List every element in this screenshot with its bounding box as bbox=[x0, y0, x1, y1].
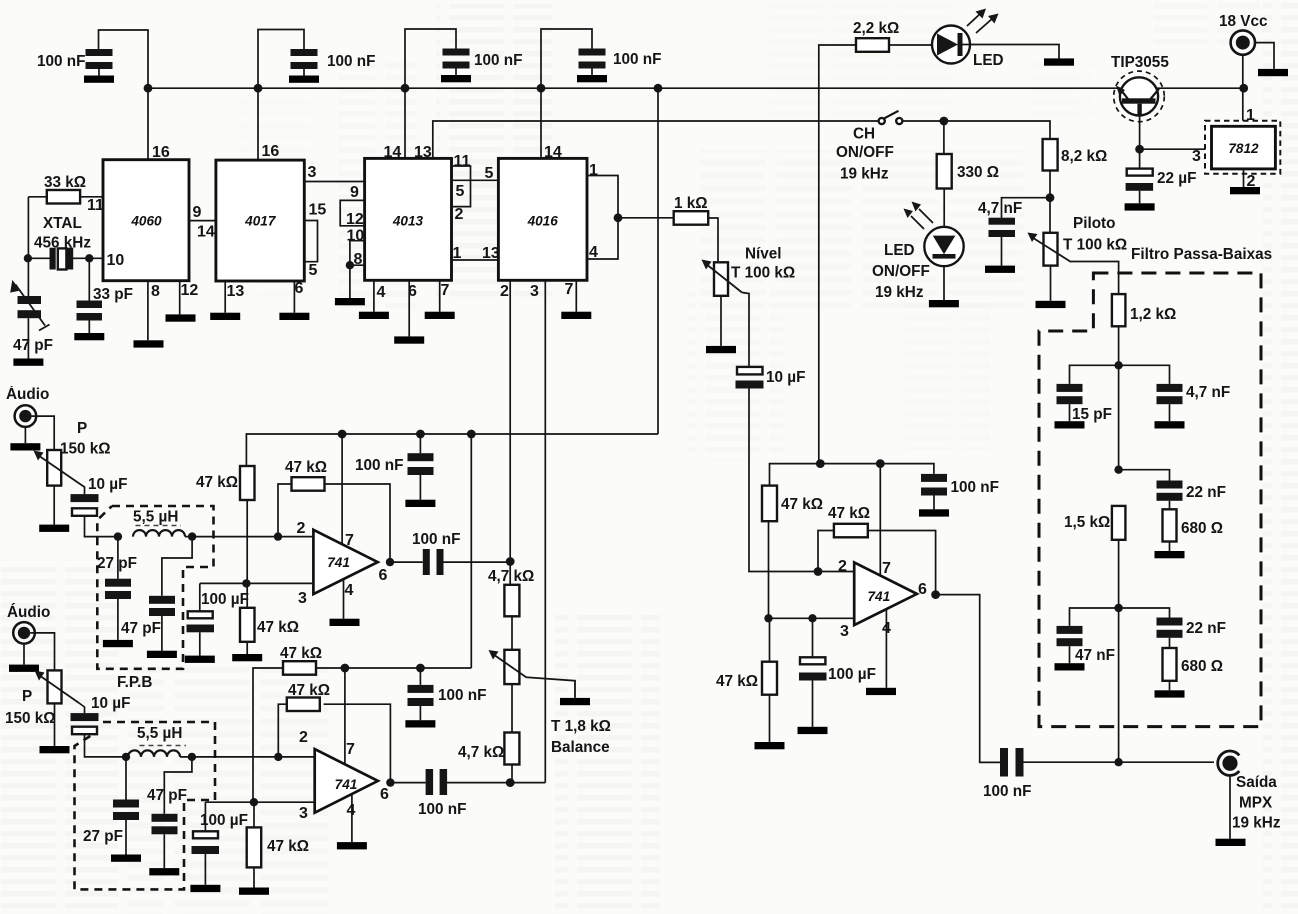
svg-text:1 kΩ: 1 kΩ bbox=[674, 195, 708, 212]
wire piloto bottom to ground bbox=[1050, 266, 1052, 301]
IC U1 4060 bbox=[103, 160, 189, 281]
ground U3 pin4 bbox=[359, 312, 389, 319]
svg-text:T 100 kΩ: T 100 kΩ bbox=[731, 265, 795, 282]
node rail-supply drop bbox=[654, 84, 663, 93]
resistor R14 47k feedback U6 bbox=[278, 477, 390, 562]
node U8 bus left bbox=[816, 459, 825, 468]
svg-text:7: 7 bbox=[565, 281, 574, 298]
resistor R12 47 kOhm bias lower bbox=[762, 618, 777, 742]
svg-text:3: 3 bbox=[308, 164, 317, 181]
svg-text:19 kHz: 19 kHz bbox=[875, 284, 924, 301]
capacitor C25 27 pF bbox=[113, 757, 139, 855]
ground R9 bbox=[1155, 690, 1185, 697]
resistor R13 1 kOhm bbox=[674, 211, 718, 262]
wire cap C1 loop to rail bbox=[99, 30, 149, 160]
svg-text:150 kΩ: 150 kΩ bbox=[60, 441, 111, 458]
capacitor C15 100 nF output bbox=[1000, 748, 1214, 777]
wire U6 pin3 bbox=[200, 582, 314, 584]
FPB dashed box 2 bbox=[75, 722, 216, 889]
ground U1 pin12 bbox=[166, 314, 196, 321]
wire U3-U4 pins1-13 link bbox=[452, 259, 499, 261]
node F1 bbox=[1114, 361, 1122, 369]
svg-text:100 nF: 100 nF bbox=[474, 52, 522, 69]
node U8 pin3 bias bbox=[764, 614, 772, 622]
resistor R17 4,7 kOhm bbox=[504, 562, 519, 650]
svg-text:2: 2 bbox=[500, 283, 509, 300]
svg-text:15 pF: 15 pF bbox=[1072, 406, 1112, 423]
ground C9 bbox=[1155, 421, 1185, 428]
svg-text:14: 14 bbox=[544, 144, 562, 161]
wire cap C4 loop to rail bbox=[541, 29, 592, 158]
svg-text:2: 2 bbox=[299, 729, 308, 746]
wire P2 bottom to ground bbox=[720, 296, 722, 346]
ground for C4 bbox=[577, 75, 607, 82]
potentiometer P3 150k bbox=[34, 450, 81, 486]
wire D1 cathode to ground bbox=[970, 45, 1059, 59]
svg-text:10 µF: 10 µF bbox=[91, 695, 130, 712]
svg-text:Nível: Nível bbox=[745, 246, 782, 263]
wire U1 pin8 to ground bbox=[147, 281, 149, 341]
svg-text:16: 16 bbox=[152, 144, 170, 161]
svg-text:7: 7 bbox=[882, 560, 891, 577]
ground 7812 bbox=[1230, 187, 1260, 194]
potentiometer P5 150k bbox=[35, 670, 80, 703]
node xtal right bbox=[85, 254, 93, 262]
capacitor C8 15 pF bbox=[1057, 384, 1083, 421]
capacitor C23 100 nF decoupling B bbox=[408, 668, 434, 720]
svg-text:1,2 kΩ: 1,2 kΩ bbox=[1130, 306, 1176, 323]
svg-text:9: 9 bbox=[350, 184, 359, 201]
node rail-4017 bbox=[254, 84, 263, 93]
svg-text:47 kΩ: 47 kΩ bbox=[280, 645, 322, 662]
LED D1 bbox=[932, 26, 970, 64]
svg-text:22 nF: 22 nF bbox=[1186, 484, 1226, 501]
capacitor C24 10 uF electrolytic bbox=[71, 703, 127, 757]
svg-text:T 100 kΩ: T 100 kΩ bbox=[1063, 237, 1127, 254]
svg-text:100 nF: 100 nF bbox=[37, 53, 85, 70]
ground U3 pin8 bbox=[335, 298, 365, 305]
node Q1 emitter bbox=[1135, 145, 1144, 154]
ground D2 bbox=[929, 300, 959, 307]
resistor R2 33 kOhm bbox=[28, 190, 103, 204]
wire F2 right to 22nF bbox=[1119, 470, 1170, 481]
node xtal left bbox=[24, 254, 32, 262]
svg-text:15: 15 bbox=[309, 202, 327, 219]
ground C19 bbox=[103, 640, 133, 647]
wire U7 pin3 bbox=[205, 801, 314, 803]
wire U1 pin12 to ground bbox=[179, 281, 181, 315]
svg-text:5: 5 bbox=[456, 183, 465, 200]
svg-text:100 nF: 100 nF bbox=[327, 53, 375, 70]
ground C27 bbox=[190, 885, 220, 892]
svg-text:47 kΩ: 47 kΩ bbox=[288, 682, 330, 699]
svg-text:3: 3 bbox=[299, 805, 308, 822]
LED D2 arrows bbox=[904, 202, 934, 230]
wire nivel signal to U8 pin2 bbox=[749, 388, 854, 571]
capacitor C6 4,7 nF bbox=[989, 218, 1016, 266]
wire J1 tip down to 7812 pin1 bbox=[1242, 55, 1244, 127]
capacitor C26 47 pF bbox=[152, 757, 192, 868]
node bus2 C23 bbox=[416, 664, 425, 673]
svg-text:27 pF: 27 pF bbox=[83, 828, 123, 845]
node F2 bbox=[1114, 466, 1122, 474]
wire P2 wiper to cap bbox=[742, 293, 749, 367]
svg-text:ON/OFF: ON/OFF bbox=[836, 144, 894, 161]
node L2 left bbox=[122, 753, 130, 761]
svg-text:10 µF: 10 µF bbox=[88, 476, 127, 493]
svg-text:12: 12 bbox=[181, 282, 199, 299]
LED D2 on/off indicator bbox=[924, 227, 963, 300]
node rail-4060 bbox=[144, 84, 153, 93]
capacitor C9 4,7 nF bbox=[1157, 384, 1183, 421]
ground C23 bbox=[405, 720, 435, 727]
ground J1 bbox=[1258, 69, 1288, 76]
svg-text:11: 11 bbox=[454, 153, 471, 170]
node rail right end bbox=[1239, 84, 1248, 93]
ground U7 pin4 bbox=[337, 842, 367, 849]
wire R5 to piloto node bbox=[1049, 171, 1051, 198]
capacitor C21 100 uF electrolytic U6 bbox=[187, 583, 215, 655]
wire opamp supply bus 1 bbox=[246, 434, 658, 466]
ground J3 bbox=[10, 443, 40, 450]
svg-text:19 kHz: 19 kHz bbox=[1232, 815, 1281, 832]
dashed mark L2 bbox=[140, 745, 187, 747]
resistor R18 4,7 kOhm bbox=[504, 684, 519, 783]
wire J2 to ground bbox=[1229, 775, 1231, 839]
wire P3 bottom to ground bbox=[53, 486, 55, 525]
wire xtal left branch bbox=[27, 197, 29, 296]
svg-text:2: 2 bbox=[838, 558, 847, 575]
wire F3 left to 47nF bbox=[1070, 608, 1119, 626]
svg-text:33 pF: 33 pF bbox=[93, 286, 133, 303]
node A balance top bbox=[506, 557, 515, 566]
wire J4 to pot P5 bbox=[30, 633, 54, 671]
low pass filter dashed box bbox=[1039, 273, 1261, 727]
svg-text:100 nF: 100 nF bbox=[613, 51, 661, 68]
svg-text:T 1,8 kΩ: T 1,8 kΩ bbox=[551, 718, 611, 735]
wire U8 pin7 bbox=[879, 464, 881, 576]
capacitor C4 100 nF bbox=[579, 49, 606, 76]
wire node to piloto pot bbox=[1049, 198, 1051, 233]
svg-text:14: 14 bbox=[384, 144, 402, 161]
ground U8 pin4 bbox=[866, 688, 896, 695]
node U8 pin3 cap bbox=[808, 614, 816, 622]
capacitor C12 22 nF bbox=[1157, 618, 1183, 649]
node piloto top bbox=[1046, 193, 1055, 202]
svg-text:MPX: MPX bbox=[1239, 795, 1273, 812]
ground C5 bbox=[74, 333, 104, 340]
wire U6 output right bbox=[390, 561, 423, 563]
ground for C2 bbox=[289, 76, 319, 83]
wire U4 pin2 down to balance node A bbox=[509, 280, 511, 561]
svg-text:4013: 4013 bbox=[392, 214, 424, 229]
opamp U8 741 mixer bbox=[854, 562, 917, 625]
svg-text:3: 3 bbox=[1192, 148, 1201, 165]
ground R12 bbox=[755, 742, 785, 749]
transistor Q1 TIP3055 bbox=[1114, 71, 1165, 149]
svg-text:4: 4 bbox=[347, 802, 356, 819]
wire F1 left to 15pF bbox=[1070, 365, 1119, 384]
svg-text:33 kΩ: 33 kΩ bbox=[44, 174, 86, 191]
ground P4 wiper bbox=[560, 698, 590, 705]
wire J3 to pot P3 bbox=[32, 416, 55, 450]
wire F3 right to 22nF2 bbox=[1119, 608, 1170, 618]
svg-text:10 µF: 10 µF bbox=[766, 369, 805, 386]
node U7 pin3 bias bbox=[250, 798, 258, 806]
svg-text:4016: 4016 bbox=[527, 214, 559, 229]
trimpot P4 balance 1,8k bbox=[489, 650, 576, 698]
svg-text:1: 1 bbox=[589, 162, 598, 179]
node U8 pin2 bbox=[814, 567, 823, 576]
svg-text:2: 2 bbox=[455, 206, 464, 223]
node F3 bbox=[1114, 604, 1122, 612]
wire U2-U3 pin3 bbox=[304, 181, 364, 183]
svg-text:Áudio: Áudio bbox=[6, 386, 49, 403]
ground C13 bbox=[919, 509, 949, 516]
wire U8 supply bus bbox=[770, 464, 934, 486]
node bus1 link bbox=[467, 430, 476, 439]
resistor R15 47k bias upper U6 bbox=[240, 466, 255, 583]
wire U3 pin6 to ground bbox=[408, 280, 410, 336]
svg-text:LED: LED bbox=[973, 52, 1004, 69]
svg-text:8,2 kΩ: 8,2 kΩ bbox=[1061, 148, 1107, 165]
wire U8 output to MPX line bbox=[936, 595, 1000, 763]
wire U3 pin8 to ground bbox=[349, 265, 351, 298]
capacitor C2 100 nF bbox=[291, 49, 318, 76]
wire opamp supply bus 2 bbox=[316, 667, 471, 669]
jack J1 18Vcc input bbox=[1231, 30, 1255, 54]
wire node B to U4 pin3 riser bbox=[510, 782, 545, 784]
ground C8 bbox=[1055, 421, 1085, 428]
svg-text:Áudio: Áudio bbox=[7, 604, 50, 621]
svg-text:47 kΩ: 47 kΩ bbox=[285, 459, 327, 476]
wire U3 pins9-12 bracket bbox=[340, 200, 364, 225]
wire U2 pins15-5 bracket bbox=[304, 221, 317, 262]
jack J4 audio R bbox=[13, 622, 35, 664]
ground C25 bbox=[111, 855, 141, 862]
ground J2 bbox=[1216, 839, 1246, 846]
svg-text:19 kHz: 19 kHz bbox=[840, 166, 889, 183]
svg-text:2,2 kΩ: 2,2 kΩ bbox=[853, 20, 899, 37]
wire piloto wiper to filter bbox=[1071, 262, 1119, 295]
svg-text:4,7 kΩ: 4,7 kΩ bbox=[458, 744, 504, 761]
svg-text:7812: 7812 bbox=[1228, 141, 1259, 156]
svg-text:7: 7 bbox=[441, 282, 450, 299]
resistor R4 330 Ohm bbox=[937, 154, 952, 189]
wire U2 pin6 to ground bbox=[293, 281, 295, 313]
capacitor C19 27 pF bbox=[105, 537, 131, 640]
svg-text:5,5 µH: 5,5 µH bbox=[137, 725, 182, 742]
svg-text:Balance: Balance bbox=[551, 739, 610, 756]
wire R7 to ground bbox=[1169, 542, 1171, 552]
svg-text:3: 3 bbox=[840, 623, 849, 640]
svg-text:47 kΩ: 47 kΩ bbox=[257, 619, 299, 636]
wire U8 pin3 bbox=[769, 521, 855, 618]
svg-text:47 kΩ: 47 kΩ bbox=[267, 838, 309, 855]
node U7 output bbox=[386, 778, 394, 786]
wire bus link down to bus2 bbox=[470, 434, 472, 668]
svg-text:100 nF: 100 nF bbox=[951, 479, 999, 496]
ground C7 bbox=[1125, 203, 1155, 210]
svg-text:11: 11 bbox=[87, 197, 104, 214]
ground C20 bbox=[147, 651, 177, 658]
svg-text:22 µF: 22 µF bbox=[1157, 170, 1196, 187]
wire R8 to node F3 bbox=[1118, 540, 1120, 608]
svg-text:47 pF: 47 pF bbox=[121, 620, 161, 637]
svg-text:150 kΩ: 150 kΩ bbox=[5, 710, 56, 727]
resistor R11 47 kOhm feedback bbox=[818, 524, 936, 595]
svg-text:27 pF: 27 pF bbox=[97, 555, 137, 572]
ground U3 pin6 bbox=[394, 336, 424, 343]
resistor R10 47 kOhm bias bbox=[762, 486, 777, 522]
wire P5 bottom to ground bbox=[54, 703, 56, 746]
svg-text:13: 13 bbox=[414, 144, 432, 161]
svg-text:100 µF: 100 µF bbox=[200, 812, 248, 829]
ground CV1 bbox=[13, 359, 43, 366]
wire U4 pins1-4 bracket bbox=[587, 176, 618, 260]
svg-text:TIP3055: TIP3055 bbox=[1111, 54, 1169, 71]
wire Q1 to 7812 pin3 bbox=[1140, 148, 1205, 150]
ground U3 pin7 bbox=[425, 312, 455, 319]
wire U6 pin7 supply bbox=[341, 434, 343, 544]
wire R4 to LED D2 bbox=[943, 189, 945, 228]
svg-text:16: 16 bbox=[262, 143, 280, 160]
svg-text:100 µF: 100 µF bbox=[201, 591, 249, 608]
ground R7 bbox=[1155, 551, 1185, 558]
wire U6 pin4 to ground bbox=[343, 579, 345, 619]
wire J1 sleeve to ground bbox=[1255, 43, 1274, 69]
capacitor C14 100 uF electrolytic bbox=[799, 618, 827, 727]
capacitor C16 10 uF electrolytic bbox=[736, 367, 764, 389]
resistor R6 1,2 kOhm bbox=[1112, 294, 1126, 326]
wire U3 pins11-2 bracket bbox=[452, 166, 471, 207]
wire U7 pin7 supply bbox=[344, 668, 346, 764]
wire cap C3 loop to rail bbox=[405, 29, 456, 158]
svg-text:Saída: Saída bbox=[1236, 774, 1277, 791]
resistor R16 47k bias lower U6 bbox=[240, 583, 255, 654]
ground P5 bbox=[40, 746, 70, 753]
resistor R9 680 Ohm bbox=[1163, 648, 1177, 681]
capacitor C17 100 nF decoupling A1 bbox=[408, 434, 434, 500]
node U7 pin2 bbox=[274, 753, 282, 761]
svg-text:ON/OFF: ON/OFF bbox=[872, 263, 930, 280]
node L1 left bbox=[114, 532, 122, 540]
wire U4 output to 1k bbox=[618, 217, 674, 219]
IC U3 4013 bbox=[365, 158, 452, 280]
wire U2 pin13 to ground bbox=[224, 281, 226, 313]
wire supply drop x658 rail to opamp supply bus bbox=[657, 88, 659, 434]
capacitor C27 100 uF electrolytic U7 bbox=[192, 802, 220, 885]
ground C14 bbox=[798, 727, 828, 734]
node U6 pin3 bias bbox=[242, 579, 250, 587]
wire U3 pin4 to ground bbox=[373, 280, 375, 311]
svg-text:6: 6 bbox=[379, 567, 388, 584]
wire LED branch top bbox=[819, 45, 856, 464]
ground C17 bbox=[405, 500, 435, 507]
resistor R7 680 Ohm bbox=[1163, 509, 1177, 541]
svg-text:47 kΩ: 47 kΩ bbox=[716, 673, 758, 690]
node U8 output bbox=[931, 590, 940, 599]
svg-text:4: 4 bbox=[377, 284, 386, 301]
node B balance bottom bbox=[506, 778, 515, 787]
ground U2 pin6 bbox=[279, 313, 309, 320]
crystal XTAL1 bbox=[28, 248, 103, 270]
svg-text:7: 7 bbox=[345, 532, 354, 549]
svg-text:P: P bbox=[77, 420, 87, 437]
resistor R19 47k bias upper U7 bbox=[253, 661, 316, 802]
capacitor C10 22 nF bbox=[1157, 481, 1183, 510]
svg-text:9: 9 bbox=[193, 204, 202, 221]
svg-text:6: 6 bbox=[380, 786, 389, 803]
wire F1 to node F2 bbox=[1118, 365, 1120, 469]
svg-text:13: 13 bbox=[227, 283, 245, 300]
FPB dashed box 1 bbox=[97, 506, 213, 669]
jack J2 saida MPX bbox=[1218, 751, 1240, 775]
svg-text:4,7 kΩ: 4,7 kΩ bbox=[488, 568, 534, 585]
ground C26 bbox=[149, 868, 179, 875]
node L2 right bbox=[188, 753, 196, 761]
node U3 pin8 bbox=[346, 261, 354, 269]
ground J4 bbox=[9, 665, 39, 672]
capacitor C18 10 uF electrolytic bbox=[71, 484, 118, 537]
node bus1 741a pin7 bbox=[338, 430, 347, 439]
opamp U6 741 channel A bbox=[313, 530, 377, 594]
node U4 output bbox=[614, 213, 623, 222]
svg-text:47 kΩ: 47 kΩ bbox=[828, 505, 870, 522]
svg-text:8: 8 bbox=[151, 283, 160, 300]
svg-text:47 kΩ: 47 kΩ bbox=[196, 474, 238, 491]
wire U3 pins10-8 bracket bbox=[350, 241, 365, 266]
wire switch to piloto corner bbox=[903, 121, 1050, 139]
trimpot P2 Nivel T100k bbox=[702, 260, 743, 296]
wire L2 right to U7 pin2 bbox=[180, 756, 315, 758]
svg-text:4: 4 bbox=[345, 582, 354, 599]
svg-text:CH: CH bbox=[853, 126, 875, 143]
ground C11 bbox=[1055, 663, 1085, 670]
svg-text:330 Ω: 330 Ω bbox=[957, 164, 999, 181]
svg-text:47 pF: 47 pF bbox=[147, 787, 187, 804]
IC U2 4017 bbox=[216, 160, 304, 281]
svg-text:18 Vcc: 18 Vcc bbox=[1219, 13, 1268, 30]
node L1 right bbox=[188, 532, 196, 540]
svg-text:LED: LED bbox=[884, 242, 915, 259]
svg-text:7: 7 bbox=[346, 741, 355, 758]
ground P2 bbox=[706, 346, 736, 353]
wire U4 pin3 down to balance node B bbox=[544, 280, 546, 782]
resistor R3 2,2 kOhm bbox=[856, 38, 933, 52]
wire U3-U4 pin5 link bbox=[452, 179, 499, 181]
resistor R8 1,5 kOhm bbox=[1112, 506, 1126, 540]
trimpot P1 Piloto T 100k bbox=[1028, 233, 1072, 266]
wire U3 pin13 up to CH switch line bbox=[433, 121, 878, 158]
node 330 ohm tap bbox=[940, 117, 949, 126]
svg-text:47 kΩ: 47 kΩ bbox=[781, 496, 823, 513]
wire L1 right to A1 pin2 bbox=[185, 536, 313, 538]
capacitor C1 100 nF bbox=[86, 49, 113, 76]
svg-text:Piloto: Piloto bbox=[1073, 215, 1116, 232]
ground D1 bbox=[1044, 58, 1074, 65]
svg-text:100 nF: 100 nF bbox=[438, 687, 486, 704]
svg-text:10: 10 bbox=[107, 252, 125, 269]
wire node to 4,7nF bbox=[1002, 198, 1051, 219]
ground U1 pin8 bbox=[134, 340, 164, 347]
wire U4 pin7 to ground bbox=[575, 280, 577, 311]
capacitor C3 100 nF bbox=[443, 49, 470, 76]
switch CH on/off bbox=[879, 111, 903, 124]
resistor R5 8,2 kOhm bbox=[1043, 139, 1058, 171]
svg-text:XTAL: XTAL bbox=[43, 215, 82, 232]
svg-text:3: 3 bbox=[298, 590, 307, 607]
